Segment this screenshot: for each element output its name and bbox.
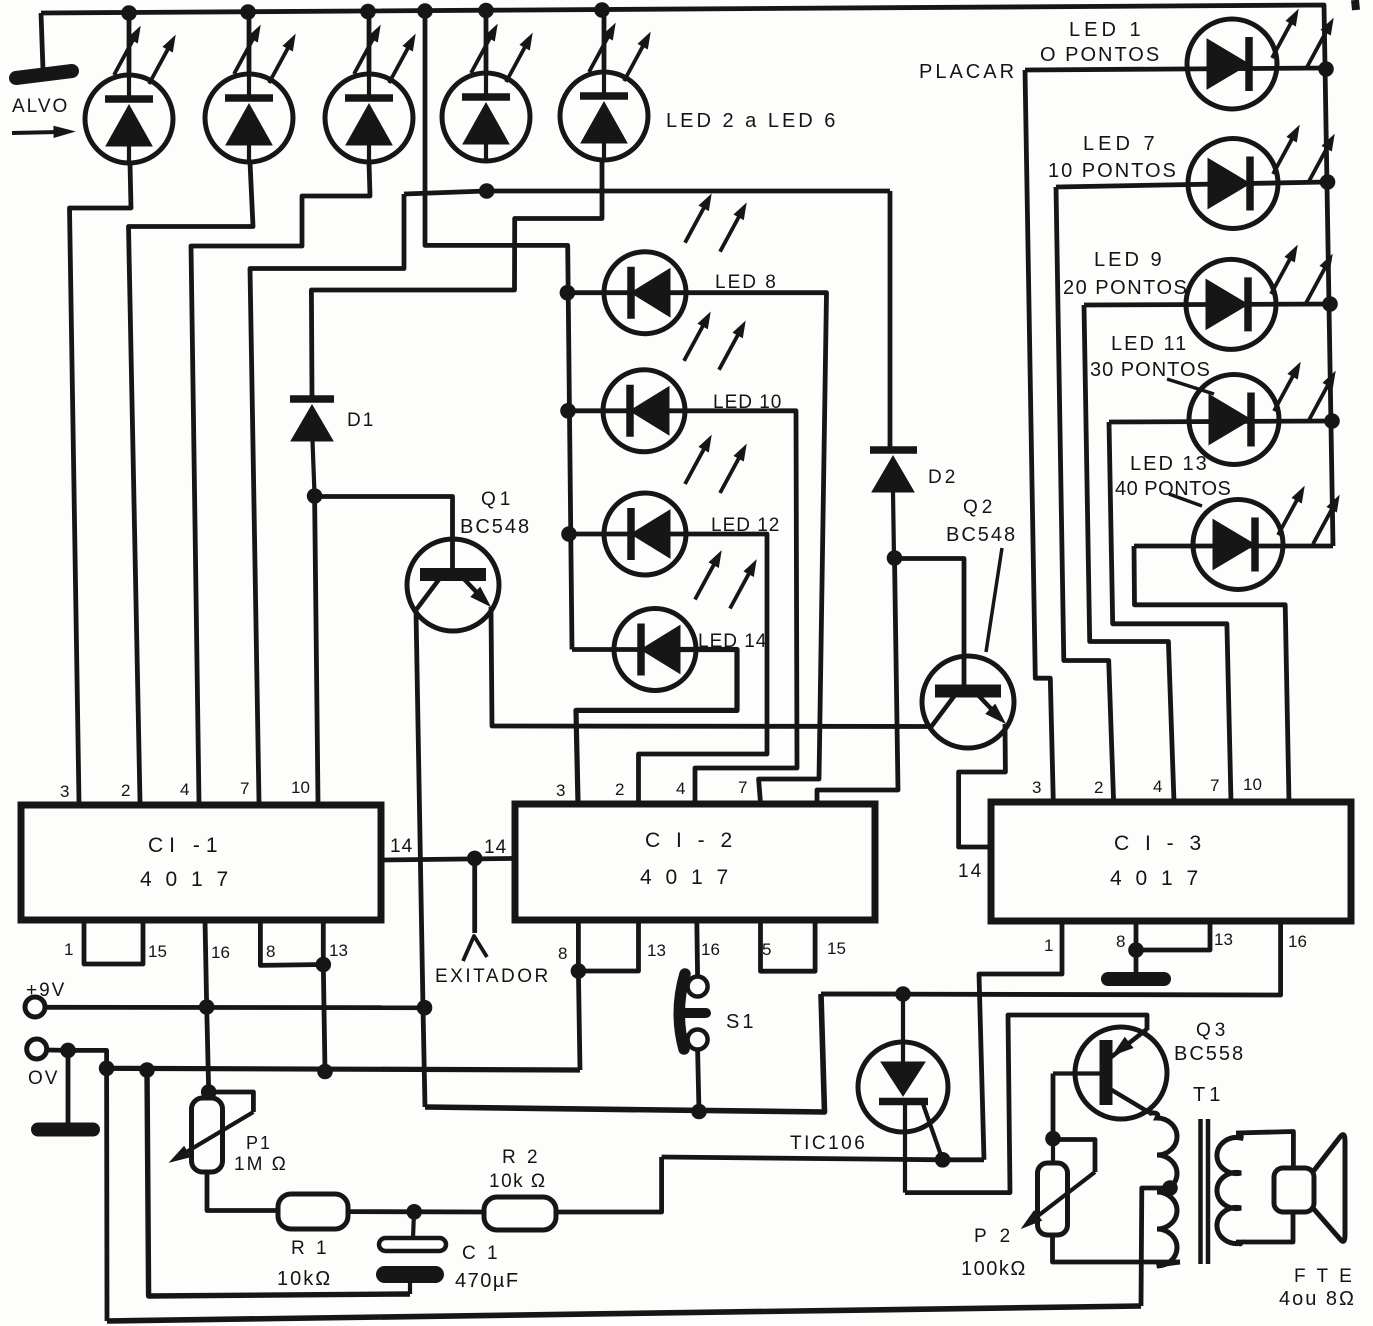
node EXITADOR junction bbox=[467, 851, 483, 867]
wire Q2 base from D2 junction bbox=[895, 559, 965, 686]
node S1 bottom junction bbox=[691, 1104, 707, 1120]
LED1 light arrows bbox=[1272, 10, 1333, 67]
wire Q1 base from D1 junction bbox=[315, 497, 453, 569]
node D2 / Q2 base junction bbox=[887, 550, 903, 566]
svg-text:O PONTOS: O PONTOS bbox=[1040, 44, 1161, 66]
wire CI-3 pin 8 to ground bbox=[1134, 921, 1139, 975]
wire secondary to speaker top bbox=[1236, 1132, 1293, 1169]
label T1 bbox=[1193, 1084, 1224, 1106]
wire TIC106 cathode to Q3 emitter bbox=[905, 1015, 1147, 1193]
node TIC106 gate junction bbox=[935, 1152, 951, 1168]
svg-text:10: 10 bbox=[291, 778, 310, 797]
EXITADOR probe arrow bbox=[463, 858, 487, 961]
svg-text:14: 14 bbox=[484, 837, 507, 858]
P2 wiper bbox=[1022, 1140, 1095, 1229]
label CI-3 4017 bbox=[1110, 867, 1202, 890]
wire TIC106 gate bbox=[923, 1104, 943, 1160]
IC CI-2 4017 bbox=[515, 804, 875, 920]
svg-text:7: 7 bbox=[1210, 776, 1219, 795]
ground bar 0V bbox=[38, 1123, 93, 1137]
ALVO target bar bbox=[16, 71, 72, 78]
label LED 1 bbox=[1069, 19, 1145, 41]
wire 0V rail bbox=[107, 1068, 580, 1070]
svg-text:13: 13 bbox=[647, 941, 666, 960]
wire S1 to bottom rail bbox=[698, 1050, 699, 1112]
svg-text:3: 3 bbox=[1032, 778, 1041, 797]
LED11 light arrows bbox=[1274, 363, 1335, 420]
svg-text:ALVO: ALVO bbox=[12, 96, 69, 117]
decorative corner tick bbox=[1355, 0, 1356, 10]
svg-text:8: 8 bbox=[266, 942, 275, 961]
svg-text:1M Ω: 1M Ω bbox=[234, 1154, 288, 1175]
label LED8 bbox=[715, 272, 778, 293]
wire CI-1 pins 1-15 strap bbox=[84, 920, 143, 964]
wire T1 tap to bottom rail bbox=[1141, 1188, 1170, 1306]
svg-text:CI -1: CI -1 bbox=[148, 834, 224, 857]
svg-text:10kΩ: 10kΩ bbox=[277, 1268, 332, 1290]
Q2 label pointer line bbox=[986, 548, 1002, 652]
node CI-2 pin 8 junction bbox=[571, 963, 587, 979]
CI-3 top pin labels 3 2 4 7 10 bbox=[1032, 775, 1262, 797]
node middle anode rail junctions bbox=[560, 285, 577, 542]
label R1 10k bbox=[277, 1268, 332, 1290]
wire Q3 collector to T1 primary bbox=[1150, 1113, 1152, 1114]
label LED 11 bbox=[1111, 333, 1188, 355]
label LED14 bbox=[698, 631, 767, 652]
svg-text:4 0 1 7: 4 0 1 7 bbox=[140, 868, 232, 891]
node T1 primary tap bbox=[1162, 1180, 1178, 1196]
LED11 label pointer bbox=[1167, 379, 1214, 394]
svg-text:1: 1 bbox=[64, 940, 73, 959]
diode D2 bbox=[870, 450, 917, 558]
label 40 PONTOS bbox=[1115, 478, 1231, 500]
CI-2 bottom pin labels bbox=[558, 939, 846, 963]
svg-text:3: 3 bbox=[556, 781, 565, 800]
label Q1 BC548 bbox=[460, 516, 531, 538]
wire LED11 row bbox=[1109, 421, 1332, 422]
svg-text:13: 13 bbox=[329, 941, 348, 960]
node TIC106 anode junction bbox=[895, 986, 911, 1002]
svg-text:4: 4 bbox=[180, 780, 189, 799]
transistor Q2 BC548 bbox=[922, 656, 1014, 748]
wire CI-3 pins 8-13 strap bbox=[1136, 921, 1210, 950]
label LED12 bbox=[711, 515, 780, 536]
label Q3 BC558 bbox=[1174, 1043, 1245, 1065]
LED12 bbox=[604, 493, 686, 575]
wire LED8 cathode to CI-2 pin 7 bbox=[670, 293, 827, 803]
svg-text:7: 7 bbox=[738, 778, 747, 797]
LED14 light arrows bbox=[695, 552, 756, 609]
wire LED9 row to CI-3 pin 4 bbox=[1084, 305, 1174, 802]
svg-text:15: 15 bbox=[827, 939, 846, 958]
label CI-1 bbox=[148, 834, 224, 857]
LED4 (LED 2 a LED 6 row) bbox=[325, 74, 413, 162]
label Q2 BC548 bbox=[946, 524, 1017, 546]
svg-text:15: 15 bbox=[148, 942, 167, 961]
svg-text:8: 8 bbox=[558, 944, 567, 963]
svg-text:30 PONTOS: 30 PONTOS bbox=[1090, 359, 1211, 381]
wire LED14 anode bbox=[572, 647, 642, 652]
node +9V rail junctions bbox=[199, 999, 432, 1015]
node D1 / Q1 base junction bbox=[307, 488, 323, 504]
wire LED4 cathode to CI-1 pin 4 bbox=[191, 162, 370, 802]
svg-text:10: 10 bbox=[1243, 775, 1262, 794]
svg-text:+9V: +9V bbox=[26, 980, 66, 1001]
LED6 light arrows bbox=[589, 24, 650, 81]
wire LED5 anode stub bbox=[484, 10, 489, 74]
wire CI-2 pin 8 to 0V rail bbox=[578, 971, 580, 1070]
svg-text:10k Ω: 10k Ω bbox=[489, 1171, 547, 1192]
svg-text:TIC106: TIC106 bbox=[790, 1133, 867, 1154]
label LED10 bbox=[713, 392, 782, 413]
wire Q3 base to P2 bbox=[1051, 1074, 1056, 1139]
label CI-2 4017 bbox=[640, 866, 732, 889]
label R2 10k bbox=[489, 1171, 547, 1192]
wire LED7 row bbox=[1056, 182, 1328, 187]
CI-2 top pin labels 3 2 4 7 bbox=[556, 778, 747, 800]
wire TIC106 anode line bbox=[821, 992, 903, 997]
label CI-1 pin 14 bbox=[390, 836, 413, 857]
wire LED7 row to CI-3 pin 2 bbox=[1056, 187, 1114, 802]
svg-text:2: 2 bbox=[121, 781, 130, 800]
label O PONTOS bbox=[1040, 44, 1161, 66]
wire LED13 row to CI-3 pin 10 bbox=[1134, 546, 1289, 802]
label LED 9 bbox=[1094, 249, 1165, 271]
CI-3 bottom pin labels bbox=[1044, 930, 1307, 955]
wire D1 junction to CI-1 pin 10 bbox=[315, 496, 318, 802]
wire D2 from LED5 rail bbox=[888, 191, 893, 448]
LED9 light arrows bbox=[1271, 246, 1332, 303]
label PLACAR bbox=[919, 61, 1017, 83]
label R1 bbox=[291, 1238, 330, 1259]
diode D1 bbox=[290, 399, 334, 496]
wire secondary to speaker bottom bbox=[1236, 1212, 1293, 1242]
wire LED2 anode stub bbox=[127, 13, 132, 77]
label Q2 bbox=[963, 497, 996, 518]
node top rail junctions bbox=[121, 2, 610, 21]
wire LED4 anode stub bbox=[367, 11, 372, 75]
svg-text:4: 4 bbox=[1153, 777, 1162, 796]
terminal +9V bbox=[25, 997, 45, 1017]
label D1 bbox=[347, 410, 375, 431]
potentiometer P1 1M body bbox=[192, 1092, 223, 1172]
svg-text:D2: D2 bbox=[928, 467, 958, 488]
CI-1 bottom pin labels bbox=[64, 940, 348, 962]
wire LED6 anode stub bbox=[602, 10, 607, 73]
LED7 light arrows bbox=[1273, 126, 1334, 183]
LED8 bbox=[604, 252, 686, 334]
wire CI-1 pins 8-13 strap bbox=[260, 920, 323, 965]
svg-text:20 PONTOS: 20 PONTOS bbox=[1063, 277, 1188, 299]
svg-text:P 2: P 2 bbox=[974, 1226, 1014, 1247]
wire LED10 cathode to CI-2 pin 4 bbox=[669, 411, 797, 803]
svg-text:16: 16 bbox=[211, 943, 230, 962]
label FTE bbox=[1294, 1266, 1355, 1287]
node P1 top junction bbox=[201, 1084, 217, 1100]
label 20 PONTOS bbox=[1063, 277, 1188, 299]
wire bottom rail bbox=[107, 1306, 1141, 1321]
LED5 light arrows bbox=[471, 25, 532, 82]
svg-text:4: 4 bbox=[676, 779, 685, 798]
wire 0V to chassis ground bbox=[66, 1050, 71, 1124]
ground bar CI-3 pin 8 bbox=[1108, 972, 1164, 986]
svg-text:Q3: Q3 bbox=[1196, 1020, 1229, 1041]
LED12 light arrows bbox=[685, 436, 746, 493]
svg-text:R 1: R 1 bbox=[291, 1238, 330, 1259]
svg-text:BC548: BC548 bbox=[946, 524, 1017, 546]
svg-text:C 1: C 1 bbox=[462, 1243, 501, 1264]
node right rail junctions bbox=[1318, 61, 1340, 429]
label P1 bbox=[246, 1133, 272, 1153]
label FTE impedance bbox=[1279, 1288, 1356, 1310]
wire +9V rail bbox=[45, 1005, 425, 1010]
switch S1 bbox=[679, 974, 707, 1050]
wire LED12 anode bbox=[569, 532, 632, 537]
label CI-3 pin 14 bbox=[958, 861, 983, 882]
LED2 (LED 2 a LED 6 row) bbox=[85, 75, 173, 163]
wire Q1 collector to +9V rail bbox=[416, 611, 425, 1107]
svg-text:7: 7 bbox=[240, 779, 249, 798]
svg-text:10 PONTOS: 10 PONTOS bbox=[1048, 160, 1178, 182]
wire strap down to 0V rail bbox=[323, 965, 325, 1072]
potentiometer P2 100k body bbox=[1038, 1139, 1068, 1235]
wire CI-3 pin 16 to anode line bbox=[821, 921, 1281, 995]
wire CI-2 pin 16 to S1 bbox=[694, 920, 700, 977]
LED3 (LED 2 a LED 6 row) bbox=[205, 74, 293, 162]
svg-text:16: 16 bbox=[1288, 932, 1307, 951]
LED2 light arrows bbox=[114, 27, 175, 84]
svg-text:100kΩ: 100kΩ bbox=[961, 1258, 1027, 1280]
label 30 PONTOS bbox=[1090, 359, 1211, 381]
label +9V bbox=[26, 980, 66, 1001]
wire LED5 cathode rail to CI-1 pin 7 bbox=[250, 194, 404, 802]
wire LED1 row (PLACAR) bbox=[1025, 68, 1326, 70]
wire CI-3 pin 1 to TIC106 gate line bbox=[979, 921, 1062, 1160]
label P1 1M bbox=[234, 1154, 288, 1175]
SCR TIC106 bbox=[858, 994, 948, 1193]
wire CI-1 pin 14 to CI-2 pin 14 bbox=[381, 858, 515, 860]
svg-text:LED 7: LED 7 bbox=[1083, 133, 1159, 155]
node CI-3 pin 8 junction bbox=[1128, 942, 1144, 958]
label C1 470uF bbox=[455, 1270, 520, 1292]
label Q3 bbox=[1196, 1020, 1229, 1041]
node C1 top junction bbox=[406, 1204, 422, 1220]
wire LED6 cathode to D1 / CI-1 pin 10 bbox=[311, 160, 602, 396]
svg-text:1: 1 bbox=[1044, 936, 1053, 955]
label LED 7 bbox=[1083, 133, 1159, 155]
wire LED5/D2 horizontal rail bbox=[404, 191, 890, 194]
capacitor C1 470uF bbox=[376, 1212, 446, 1294]
svg-text:S1: S1 bbox=[726, 1011, 756, 1033]
label LED 2 a LED 6 bbox=[666, 110, 838, 132]
wire D2 junction down to CI-2 top pin bbox=[817, 558, 898, 803]
transformer T1 secondary winding bbox=[1217, 1134, 1241, 1244]
label S1 bbox=[726, 1011, 756, 1033]
speaker FTE bbox=[1274, 1135, 1345, 1242]
svg-text:2: 2 bbox=[1094, 778, 1103, 797]
label 10 PONTOS bbox=[1048, 160, 1178, 182]
wire CI-2 pins 8-13 strap bbox=[578, 920, 638, 971]
resistor R2 10k body bbox=[484, 1197, 556, 1230]
svg-text:R 2: R 2 bbox=[502, 1147, 541, 1168]
wire 0V rail to C1 return bbox=[147, 1070, 410, 1296]
wire 0V down to bottom rail bbox=[104, 1068, 109, 1321]
LED5 (LED 2 a LED 6 row) bbox=[442, 73, 530, 161]
svg-text:Q1: Q1 bbox=[481, 489, 514, 510]
svg-text:4 0 1 7: 4 0 1 7 bbox=[640, 866, 732, 889]
wire top rail to middle LED anode rail bbox=[425, 11, 572, 650]
node P2 top junction bbox=[1045, 1131, 1061, 1147]
svg-text:13: 13 bbox=[1214, 930, 1233, 949]
IC CI-3 4017 bbox=[991, 802, 1351, 921]
svg-text:4ou 8Ω: 4ou 8Ω bbox=[1279, 1288, 1356, 1310]
resistor R1 10k body bbox=[278, 1194, 348, 1229]
CI-1 top pin labels 3 2 4 7 10 bbox=[60, 778, 310, 801]
wire LED1 row to CI-3 pin 3 bbox=[1025, 70, 1053, 802]
LED6 (LED 2 a LED 6 row) bbox=[560, 72, 648, 160]
label C1 bbox=[462, 1243, 501, 1264]
svg-text:BC558: BC558 bbox=[1174, 1043, 1245, 1065]
P1 wiper bbox=[170, 1092, 253, 1162]
LED10 light arrows bbox=[684, 313, 745, 370]
wire R1 to R2 bbox=[348, 1209, 484, 1214]
wire LED2 cathode to CI-1 pin 3 bbox=[70, 163, 132, 802]
svg-text:LED 1: LED 1 bbox=[1069, 19, 1145, 41]
wire Q1 emitter to Q2 collector bbox=[491, 607, 931, 727]
wire LED8 anode bbox=[567, 290, 632, 295]
LED8 light arrows bbox=[685, 195, 746, 252]
node LED5 bottom junction bbox=[479, 183, 495, 199]
ALVO arrow bbox=[12, 126, 74, 137]
svg-text:T1: T1 bbox=[1193, 1084, 1224, 1106]
label P 2 bbox=[974, 1226, 1014, 1247]
svg-text:C I - 3: C I - 3 bbox=[1114, 832, 1206, 855]
svg-text:OV: OV bbox=[28, 1068, 59, 1089]
svg-text:F T E: F T E bbox=[1294, 1266, 1355, 1287]
LED13 label pointer bbox=[1169, 494, 1202, 506]
wire R2 to gate line bbox=[556, 1157, 662, 1212]
wire 0V terminal to ground and rail bbox=[47, 1050, 107, 1068]
svg-text:8: 8 bbox=[1116, 932, 1125, 951]
label 0V bbox=[28, 1068, 59, 1089]
svg-text:LED 11: LED 11 bbox=[1111, 333, 1188, 355]
label LED 13 bbox=[1130, 453, 1209, 475]
svg-text:BC548: BC548 bbox=[460, 516, 531, 538]
wire CI-1 pin 16 down to P1 bbox=[205, 920, 209, 1092]
label EXITADOR bbox=[435, 966, 551, 987]
svg-text:14: 14 bbox=[958, 861, 983, 882]
label P2 100k bbox=[961, 1258, 1027, 1280]
wire LED9 row bbox=[1084, 304, 1330, 305]
transistor Q1 BC548 bbox=[407, 539, 499, 631]
LED11 bbox=[1189, 375, 1279, 465]
svg-text:470µF: 470µF bbox=[455, 1270, 520, 1292]
svg-text:4 0 1 7: 4 0 1 7 bbox=[1110, 867, 1202, 890]
label CI-2 bbox=[645, 829, 737, 852]
svg-text:2: 2 bbox=[615, 780, 624, 799]
label CI-2 pin 14 bbox=[484, 837, 507, 858]
LED3 light arrows bbox=[234, 26, 295, 83]
terminal 0V bbox=[27, 1039, 47, 1059]
wire ALVO drop bbox=[41, 13, 43, 70]
svg-text:D1: D1 bbox=[347, 410, 375, 431]
wire LED14 cathode to CI-2 pin 3 bbox=[576, 650, 737, 804]
node 0V rail junctions bbox=[99, 1061, 333, 1080]
T1 core bbox=[1201, 1119, 1209, 1264]
wire CI-2 pins 5-15 strap bbox=[761, 920, 816, 971]
svg-text:5: 5 bbox=[762, 940, 771, 959]
LED14 bbox=[614, 609, 696, 691]
wire LED3 cathode to CI-1 pin 2 bbox=[129, 162, 254, 802]
transformer T1 primary winding bbox=[1150, 1113, 1180, 1266]
svg-text:LED 2 a LED 6: LED 2 a LED 6 bbox=[666, 110, 838, 132]
wire LED12 cathode to CI-2 pin 2 bbox=[639, 534, 768, 803]
svg-text:Q2: Q2 bbox=[963, 497, 996, 518]
wire LED3 anode stub bbox=[247, 12, 252, 75]
label ALVO bbox=[12, 96, 69, 117]
wire P2 bottom to T1 bbox=[1053, 1235, 1181, 1262]
svg-text:EXITADOR: EXITADOR bbox=[435, 966, 551, 987]
LED13 bbox=[1193, 500, 1283, 590]
svg-text:3: 3 bbox=[60, 782, 69, 801]
wire S1 feed rail bbox=[425, 994, 825, 1112]
label R2 bbox=[502, 1147, 541, 1168]
LED10 bbox=[603, 370, 685, 452]
wire LED10 anode bbox=[568, 408, 631, 413]
LED9 bbox=[1186, 259, 1276, 349]
LED4 light arrows bbox=[354, 26, 415, 83]
svg-text:LED 13: LED 13 bbox=[1130, 453, 1209, 475]
wire top supply rail bbox=[41, 5, 1333, 546]
node CI-1 pin13 strap junction bbox=[316, 957, 332, 973]
IC CI-1 4017 bbox=[21, 805, 381, 920]
label TIC106 bbox=[790, 1133, 867, 1154]
wire LED13 row bbox=[1134, 544, 1333, 549]
label CI-3 bbox=[1114, 832, 1206, 855]
transistor Q3 BC558 bbox=[1053, 1027, 1167, 1119]
node 0V terminal junction bbox=[60, 1043, 76, 1059]
LED7 bbox=[1188, 139, 1278, 229]
LED1 bbox=[1187, 19, 1277, 109]
label CI-1 4017 bbox=[140, 868, 232, 891]
svg-text:PLACAR: PLACAR bbox=[919, 61, 1017, 83]
svg-text:LED 8: LED 8 bbox=[715, 272, 778, 293]
label D2 bbox=[928, 467, 958, 488]
wire gate line from R2 bbox=[662, 1157, 984, 1160]
svg-text:P1: P1 bbox=[246, 1133, 272, 1153]
wire P1 bottom to R1 bbox=[207, 1172, 278, 1211]
label Q1 bbox=[481, 489, 514, 510]
wire Q2 emitter to CI-3 pin 14 bbox=[959, 724, 1006, 847]
wire LED11 row to CI-3 pin 7 bbox=[1109, 422, 1231, 802]
svg-text:14: 14 bbox=[390, 836, 413, 857]
LED13 light arrows bbox=[1278, 487, 1339, 544]
svg-text:16: 16 bbox=[701, 940, 720, 959]
svg-text:C I - 2: C I - 2 bbox=[645, 829, 737, 852]
svg-text:LED 9: LED 9 bbox=[1094, 249, 1165, 271]
